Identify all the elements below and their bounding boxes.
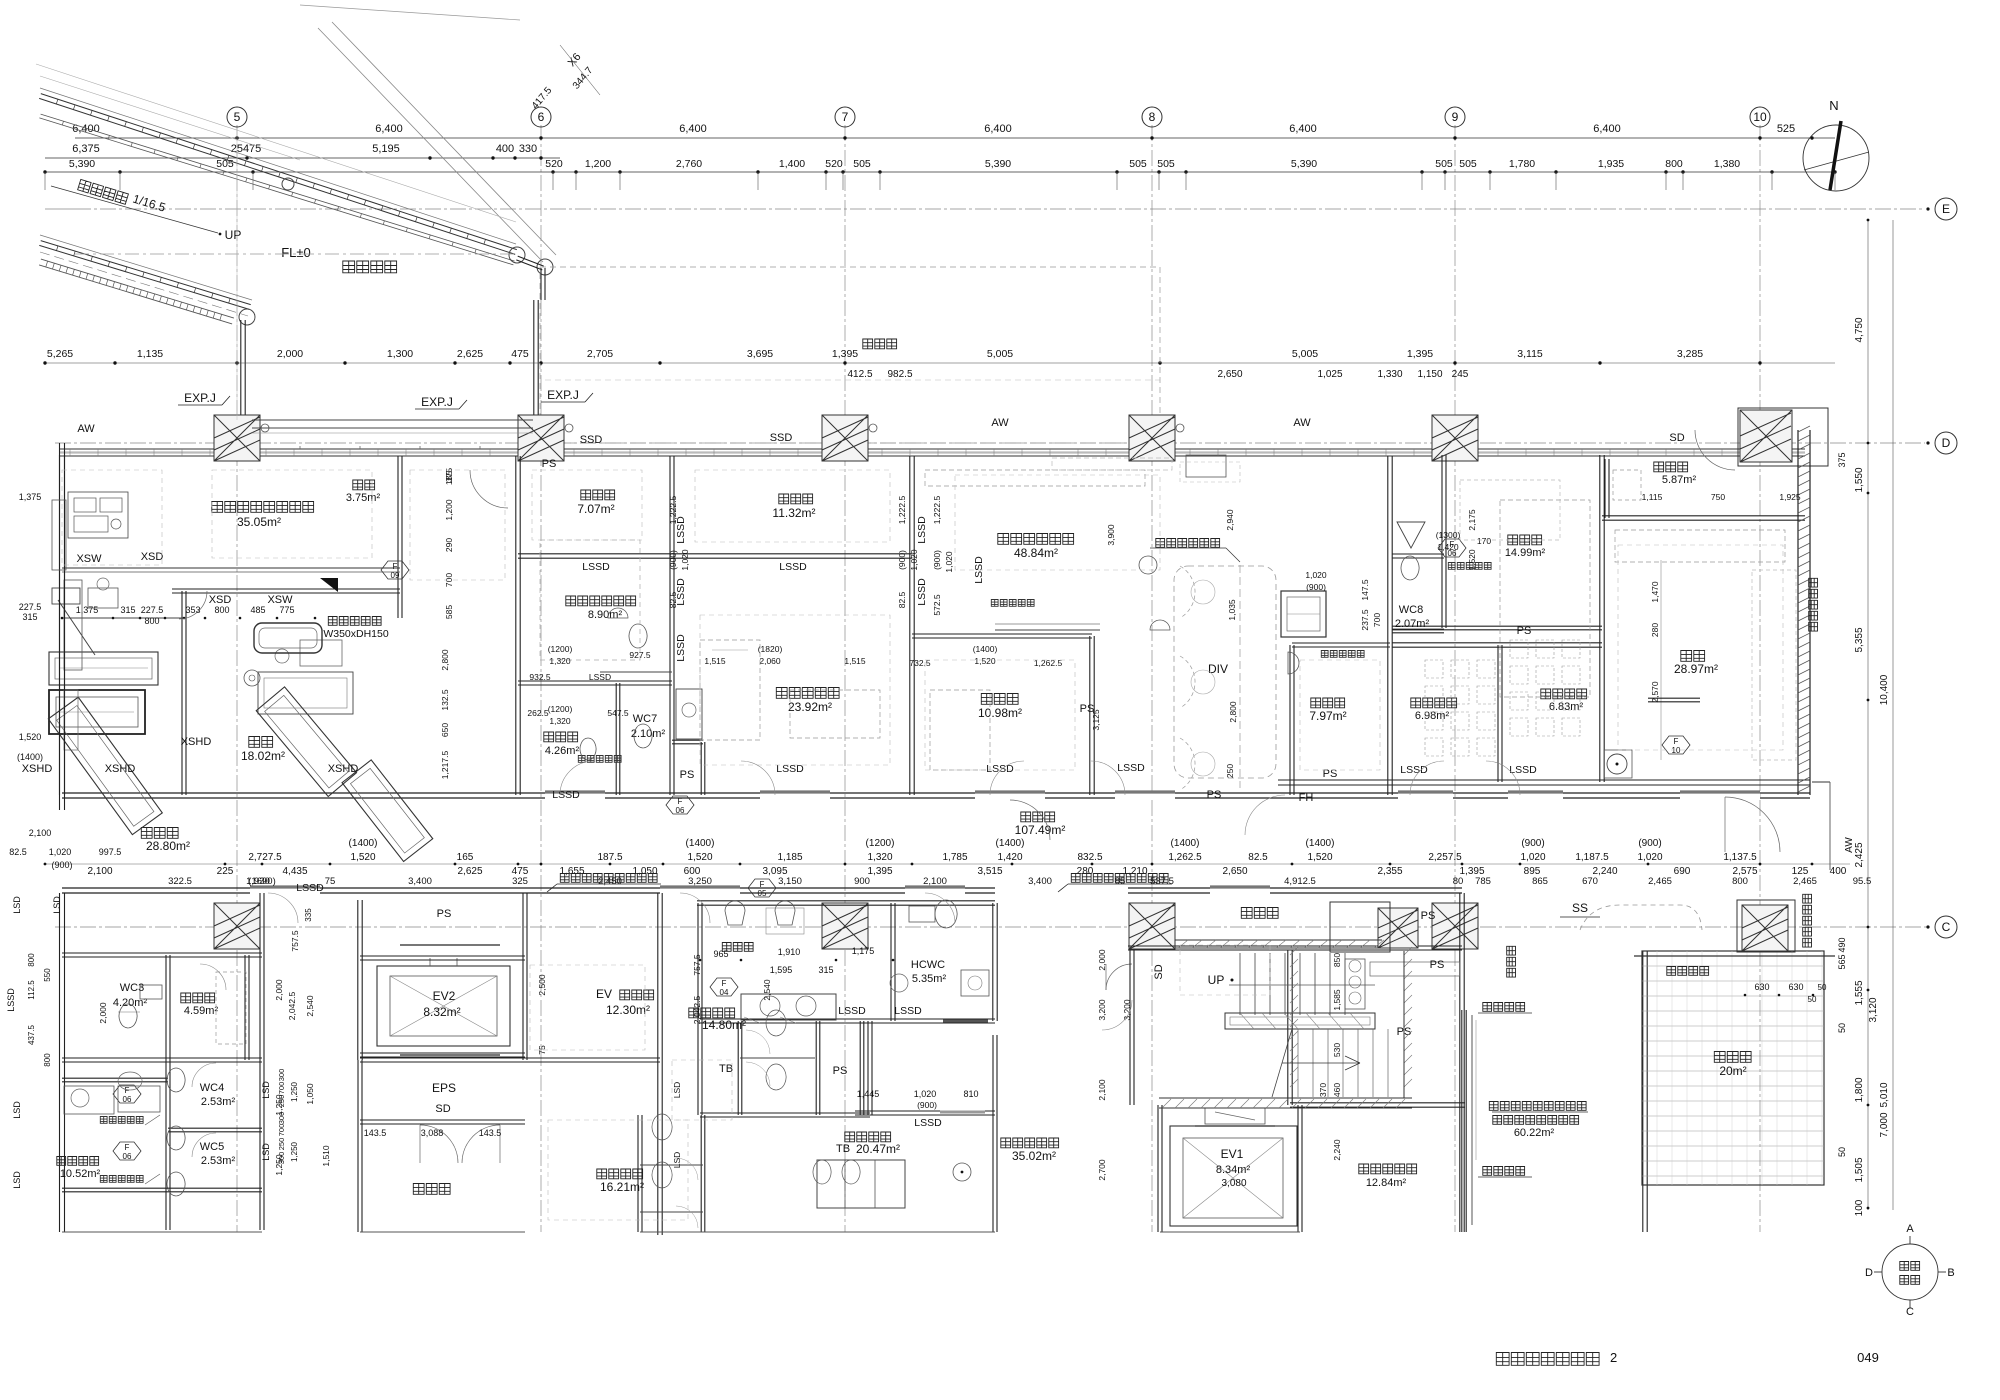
svg-text:XSW: XSW [267, 594, 293, 606]
grid bubbles right E D C [1935, 198, 1957, 220]
svg-text:5: 5 [234, 110, 241, 124]
room mendan1 6.98 [1411, 698, 1457, 708]
svg-text:D: D [1942, 436, 1951, 450]
svg-text:2,257.5: 2,257.5 [1428, 852, 1462, 863]
ozuishi label [722, 943, 753, 952]
svg-text:F: F [722, 979, 727, 988]
svg-text:1,550: 1,550 [1854, 467, 1865, 492]
svg-text:490: 490 [1837, 937, 1847, 952]
slope label [78, 179, 129, 204]
svg-text:10.98m²: 10.98m² [978, 706, 1022, 720]
ippan room top wall y591 [172, 592, 400, 594]
svg-text:2,000: 2,000 [274, 979, 284, 1001]
svg-text:147.5: 147.5 [1360, 579, 1370, 601]
svg-text:1,200: 1,200 [444, 499, 454, 521]
xray tube arm diagonal [58, 600, 95, 655]
svg-text:800: 800 [27, 953, 36, 967]
stair top-right fixtures [1345, 959, 1365, 1009]
svg-text:(1690): (1690) [248, 876, 275, 887]
svg-text:SSD: SSD [770, 432, 793, 444]
svg-text:(900): (900) [1306, 582, 1326, 592]
svg-text:520: 520 [545, 158, 563, 170]
svg-text:143.5: 143.5 [364, 1128, 387, 1138]
xray table 2 thick [49, 690, 145, 734]
kansen lining + toilet [600, 671, 672, 673]
svg-text:PS: PS [542, 458, 557, 470]
svg-text:7.97m²: 7.97m² [1309, 709, 1346, 723]
svg-text:1,135: 1,135 [137, 348, 163, 360]
svg-text:800: 800 [214, 605, 229, 615]
svg-text:PS: PS [1207, 789, 1222, 801]
svg-text:997.5: 997.5 [99, 847, 122, 857]
corridor bottom door gaps [250, 886, 320, 895]
svg-text:FH: FH [1299, 792, 1314, 804]
room seisouST [57, 1157, 99, 1166]
svg-text:1,520: 1,520 [974, 656, 996, 666]
svg-text:(900): (900) [51, 860, 72, 870]
dashed canopy outline [540, 267, 1160, 443]
svg-text:4,435: 4,435 [282, 866, 307, 877]
svg-text:1,520: 1,520 [350, 852, 375, 863]
EPS SD block [360, 1061, 660, 1063]
ramp upper circles [282, 178, 294, 190]
svg-text:(1400): (1400) [686, 838, 715, 849]
svg-text:2.07m²: 2.07m² [1395, 618, 1430, 630]
svg-text:1,222.5: 1,222.5 [897, 496, 907, 525]
kouishitsu lockers dashed [216, 972, 246, 1044]
svg-text:1,925: 1,925 [1779, 492, 1801, 502]
svg-text:2,800: 2,800 [1228, 701, 1238, 723]
svg-text:1,395: 1,395 [867, 866, 892, 877]
svg-text:2,042.5: 2,042.5 [692, 996, 702, 1025]
svg-text:375: 375 [1837, 452, 1847, 467]
svg-text:LSSD: LSSD [916, 516, 928, 544]
dashed ceiling rects rooms [532, 470, 642, 540]
dim row 2 [45, 157, 560, 159]
left sink counter cleaning room [64, 1086, 114, 1114]
svg-text:PS: PS [833, 1065, 848, 1077]
joshi right fixture [953, 1163, 971, 1181]
svg-text:F: F [760, 880, 765, 889]
svg-text:2,100: 2,100 [87, 866, 112, 877]
svg-text:1,020: 1,020 [944, 551, 954, 573]
stair treads upper flight [1240, 953, 1345, 1015]
svg-text:732.5: 732.5 [909, 658, 931, 668]
EV1 block [1157, 1105, 1159, 1232]
svg-text:520: 520 [825, 158, 843, 170]
lower-left partitions WC3/koui2 [62, 956, 262, 958]
svg-text:(1400): (1400) [996, 838, 1025, 849]
svg-text:630: 630 [1788, 982, 1803, 992]
joshi stalls left [700, 1115, 702, 1232]
door arcs lower rooms [268, 893, 298, 923]
WC8 bottom wall [1392, 632, 1444, 634]
renraku tsuro corridor label [343, 261, 397, 273]
svg-text:315: 315 [120, 605, 135, 615]
exterior wall top (window band along D) [60, 448, 1805, 450]
svg-text:EV: EV [596, 987, 612, 1001]
svg-text:5,195: 5,195 [372, 143, 400, 155]
svg-text:06: 06 [123, 1152, 132, 1161]
svg-text:932.5: 932.5 [529, 672, 551, 682]
kizaiko walls [1441, 455, 1443, 628]
room nakamachiai 28.80 [141, 828, 178, 839]
svg-text:35.02m²: 35.02m² [1012, 1149, 1056, 1163]
svg-text:50: 50 [1818, 983, 1827, 992]
svg-text:LSSD: LSSD [894, 1005, 922, 1017]
svg-text:3,125: 3,125 [1091, 709, 1101, 731]
svg-text:LSD: LSD [12, 896, 22, 914]
svg-text:1,185: 1,185 [777, 852, 802, 863]
svg-text:1,395: 1,395 [832, 348, 858, 360]
svg-text:WC5: WC5 [200, 1141, 224, 1153]
svg-text:4.59m²: 4.59m² [184, 1005, 219, 1017]
ramp band upper (connecting bridge wall) [39, 98, 515, 254]
svg-text:485: 485 [250, 605, 265, 615]
svg-text:2,700: 2,700 [1097, 1159, 1107, 1181]
dim row 3 [45, 171, 1835, 173]
right vertical dim line [1867, 220, 1869, 1210]
haisen pit rounded rect [254, 623, 322, 653]
EV2 tweak walls [360, 959, 525, 961]
AW band right of baiten going down [1812, 781, 1830, 783]
hex F markers [381, 561, 409, 579]
svg-text:2,240: 2,240 [1332, 1139, 1342, 1161]
svg-text:1,445: 1,445 [857, 1089, 880, 1099]
svg-text:12.30m²: 12.30m² [606, 1003, 650, 1017]
dim row above D [45, 362, 1835, 364]
svg-text:LSD: LSD [672, 1082, 682, 1099]
svg-text:850: 850 [1332, 953, 1342, 967]
svg-text:1,020: 1,020 [914, 1089, 937, 1099]
corridor left wall [240, 320, 242, 425]
PS box kyukyu [700, 742, 702, 795]
svg-text:28.97m²: 28.97m² [1674, 662, 1718, 676]
UP label and leader [51, 186, 218, 233]
room nakamachiai label [1241, 908, 1278, 919]
svg-text:LSSD: LSSD [296, 882, 324, 894]
svg-text:(900): (900) [932, 550, 942, 570]
svg-text:505: 505 [1129, 158, 1147, 170]
svg-text:1,785: 1,785 [942, 852, 967, 863]
svg-text:5.87m²: 5.87m² [1662, 474, 1697, 486]
fujoshitsu room with tile grid [1642, 951, 1824, 1185]
svg-text:1,520: 1,520 [1467, 549, 1477, 571]
svg-text:2.10m²: 2.10m² [631, 728, 666, 740]
svg-text:700: 700 [1372, 613, 1382, 627]
svg-text:06: 06 [123, 1095, 132, 1104]
svg-text:WC7: WC7 [633, 713, 657, 725]
svg-text:(1300): (1300) [1436, 530, 1461, 540]
X6 diagonal grid lines [318, 28, 543, 262]
upper small protrusion details top wall [299, 446, 301, 449]
svg-text:10: 10 [1753, 110, 1767, 124]
svg-text:E: E [1942, 202, 1950, 216]
svg-text:547.5: 547.5 [607, 708, 629, 718]
svg-text:LSSD: LSSD [776, 763, 804, 775]
svg-text:1,250: 1,250 [290, 1141, 299, 1162]
svg-text:7,000: 7,000 [1879, 1112, 1890, 1137]
svg-text:6,400: 6,400 [1289, 123, 1317, 135]
entrance hall west cove wall [1461, 1010, 1463, 1232]
svg-text:525: 525 [1777, 123, 1795, 135]
equip left wall small [64, 580, 82, 670]
svg-text:09: 09 [391, 571, 400, 580]
svg-text:1,222.5: 1,222.5 [932, 496, 942, 525]
equipment rack top-left [68, 492, 128, 538]
svg-text:2,042.5: 2,042.5 [287, 992, 297, 1021]
svg-text:TB: TB [836, 1143, 850, 1155]
svg-text:4,750: 4,750 [1854, 317, 1865, 342]
svg-text:505: 505 [1435, 158, 1453, 170]
svg-text:10,400: 10,400 [1879, 674, 1890, 705]
svg-text:400: 400 [496, 143, 514, 155]
svg-text:(1400): (1400) [1306, 838, 1335, 849]
door arcs corridor top openings [560, 761, 594, 795]
ramp band lower [39, 245, 249, 309]
XSHD leaf right lower [342, 760, 433, 862]
SW closet [1281, 591, 1326, 637]
svg-text:280: 280 [1650, 623, 1660, 637]
stair landing rail [1225, 1013, 1375, 1029]
svg-text:170: 170 [1477, 536, 1491, 546]
svg-text:60.22m²: 60.22m² [1514, 1127, 1555, 1139]
left exterior wall lower [59, 893, 61, 1232]
front room2 right x912 [909, 456, 911, 795]
svg-text:670: 670 [1582, 876, 1598, 887]
extra bottom edge wall stubs [62, 1231, 262, 1233]
EV2 door lines [400, 944, 500, 946]
svg-text:1,320: 1,320 [549, 716, 571, 726]
svg-text:185: 185 [444, 471, 454, 485]
joubu bouen screen labels [560, 874, 657, 883]
svg-text:(900): (900) [1521, 838, 1544, 849]
svg-text:2.53m²: 2.53m² [201, 1155, 236, 1167]
EV hall east wall [1129, 950, 1131, 1105]
WC3 fixtures [119, 1004, 137, 1028]
svg-text:1,505: 1,505 [1854, 1157, 1865, 1182]
svg-text:3,400: 3,400 [408, 876, 432, 887]
svg-text:530: 530 [1332, 1043, 1342, 1057]
svg-text:400: 400 [1830, 866, 1847, 877]
wall y556 between front rooms and lower rooms [518, 557, 912, 559]
svg-text:PS: PS [1430, 959, 1445, 971]
svg-text:1,520: 1,520 [19, 732, 42, 742]
svg-text:3,400: 3,400 [1028, 876, 1052, 887]
DIV curtain dashed zone [1174, 566, 1276, 778]
svg-text:95.5: 95.5 [1853, 876, 1872, 887]
svg-text:EXP.J: EXP.J [547, 388, 579, 402]
svg-text:C: C [1942, 920, 1951, 934]
svg-text:8.34m²: 8.34m² [1216, 1164, 1251, 1176]
nakamachiai upper corridor [1128, 949, 1462, 951]
svg-text:3.75m²: 3.75m² [346, 492, 381, 504]
svg-text:315: 315 [818, 965, 833, 975]
svg-text:(1400): (1400) [973, 644, 998, 654]
svg-text:F: F [1674, 737, 1679, 746]
svg-text:F: F [1450, 540, 1455, 549]
svg-text:TB: TB [719, 1063, 733, 1075]
WC4 WC5 block [165, 1060, 167, 1230]
svg-text:437.5: 437.5 [27, 1024, 36, 1045]
svg-text:LSSD: LSSD [552, 789, 580, 801]
curtain rail label [1156, 539, 1220, 548]
EV hall lower right wall [992, 1035, 994, 1232]
svg-text:F: F [125, 1143, 130, 1152]
svg-text:AW: AW [1844, 837, 1855, 853]
svg-text:1,780: 1,780 [1509, 158, 1535, 170]
toujitsu sink [1288, 652, 1299, 674]
svg-text:650: 650 [440, 723, 450, 737]
corridor top wall y795 [62, 792, 1810, 794]
svg-text:XSW: XSW [76, 553, 102, 565]
room souko1 5.87 [1654, 462, 1688, 472]
svg-text:2: 2 [1610, 1350, 1617, 1365]
svg-text:82.5: 82.5 [1248, 852, 1268, 863]
kyukyu beds dashed [700, 640, 760, 740]
WC8 toilet [1401, 556, 1419, 580]
svg-text:550: 550 [43, 968, 52, 982]
lining counter staff room [995, 629, 1100, 631]
svg-text:165: 165 [457, 852, 474, 863]
svg-text:1,020: 1,020 [1637, 852, 1662, 863]
corner column grid10 [1740, 410, 1792, 462]
svg-text:1,025: 1,025 [1317, 369, 1342, 380]
left exterior wall top block jog [59, 592, 61, 795]
room shinsatsu 10.98 [981, 694, 1018, 705]
svg-text:227.5: 227.5 [141, 605, 164, 615]
svg-text:330: 330 [519, 143, 537, 155]
right wing bottom wall y782 [1278, 779, 1810, 781]
svg-text:1,320: 1,320 [867, 852, 892, 863]
svg-text:1,050: 1,050 [305, 1083, 315, 1105]
columns on C line [214, 903, 260, 949]
svg-text:5,390: 5,390 [1291, 158, 1317, 170]
svg-text:5,005: 5,005 [987, 348, 1013, 360]
svg-text:1,400: 1,400 [779, 158, 805, 170]
svg-text:06: 06 [1448, 549, 1457, 558]
kansen room bottom y683 [518, 684, 672, 686]
svg-text:LSSD: LSSD [1400, 764, 1428, 776]
fire door quarter arc right [1725, 797, 1780, 852]
fujoshitsu label [1714, 1052, 1751, 1063]
stair block walls [1287, 950, 1289, 1105]
svg-text:3,250: 3,250 [688, 876, 712, 887]
svg-text:1,262.5: 1,262.5 [1034, 658, 1063, 668]
dashed car outline [1580, 905, 1702, 930]
svg-text:300: 300 [277, 1069, 286, 1082]
stair block wall hatch [1290, 947, 1412, 1087]
svg-text:48.84m²: 48.84m² [1014, 546, 1058, 560]
corridor top wall door gaps (white) [545, 791, 605, 800]
svg-text:572.5: 572.5 [932, 594, 942, 616]
svg-text:6: 6 [538, 110, 545, 124]
svg-text:6,400: 6,400 [984, 123, 1012, 135]
staff room extra dashed zone [1180, 462, 1240, 482]
svg-text:2,650: 2,650 [1222, 866, 1247, 877]
svg-text:112.5: 112.5 [27, 980, 36, 1000]
svg-text:PS: PS [1421, 910, 1436, 922]
front room partition x672 [669, 456, 671, 795]
svg-text:28.80m²: 28.80m² [146, 839, 190, 853]
svg-text:2,425: 2,425 [1854, 842, 1865, 867]
svg-text:EXP.J: EXP.J [184, 391, 216, 405]
svg-text:LSSD: LSSD [6, 988, 16, 1012]
svg-text:LSSD: LSSD [914, 1117, 942, 1129]
svg-text:1,175: 1,175 [852, 946, 875, 956]
svg-text:1,520: 1,520 [1307, 852, 1332, 863]
svg-text:LSD: LSD [12, 1101, 22, 1119]
svg-text:290: 290 [444, 538, 454, 552]
svg-text:1,020: 1,020 [909, 549, 919, 571]
svg-text:1,655: 1,655 [559, 866, 584, 877]
shinsatsu room walls [912, 637, 1092, 639]
svg-text:505: 505 [1157, 158, 1175, 170]
svg-text:(900): (900) [668, 550, 678, 570]
grid row line E [75, 208, 1925, 210]
svg-text:1,020: 1,020 [680, 549, 690, 571]
svg-text:C: C [1906, 1306, 1914, 1318]
svg-text:(900): (900) [1638, 838, 1661, 849]
svg-text:LSSD: LSSD [582, 561, 610, 573]
svg-text:5.35m²: 5.35m² [912, 973, 947, 985]
kabe dynock labels [1489, 1102, 1586, 1111]
entrance hall east wall [1642, 951, 1644, 1232]
svg-text:1,020: 1,020 [1305, 570, 1327, 580]
svg-text:775: 775 [279, 605, 294, 615]
svg-text:LSSD: LSSD [1509, 764, 1537, 776]
misc door arcs top strip [470, 470, 508, 508]
svg-text:1,380: 1,380 [1714, 158, 1740, 170]
corridor bottom wall y890 [62, 887, 995, 889]
xray table 1 horizontal [49, 652, 158, 685]
svg-text:9: 9 [1452, 110, 1459, 124]
hatched retaining band lower-left [39, 265, 232, 324]
mens wash counter island [741, 994, 836, 1020]
svg-text:982.5: 982.5 [887, 369, 912, 380]
svg-text:537.5: 537.5 [1150, 876, 1174, 887]
svg-text:1,510: 1,510 [321, 1145, 331, 1167]
svg-text:XSD: XSD [209, 594, 232, 606]
svg-text:WC4: WC4 [200, 1082, 224, 1094]
room koui2 4.59 [181, 993, 215, 1003]
room baiten 28.97 [1681, 651, 1705, 662]
toujitsu room walls [1289, 645, 1291, 795]
svg-text:75: 75 [325, 876, 336, 887]
svg-text:1,375: 1,375 [19, 492, 42, 502]
svg-text:143.5: 143.5 [479, 1128, 502, 1138]
svg-text:EXP.J: EXP.J [421, 395, 453, 409]
svg-text:250: 250 [277, 1138, 286, 1151]
svg-text:2,100: 2,100 [923, 876, 947, 887]
kansetsu shomei labels [1483, 1003, 1525, 1012]
svg-text:(1200): (1200) [548, 704, 573, 714]
svg-text:LSSD: LSSD [675, 634, 687, 662]
room kizaiko 14.99 [1508, 535, 1542, 545]
svg-text:800: 800 [144, 616, 159, 626]
svg-text:2,060: 2,060 [759, 656, 781, 666]
room toujitsu 7.97 [1311, 698, 1345, 708]
svg-text:2,000: 2,000 [277, 348, 303, 360]
svg-text:900: 900 [854, 876, 870, 887]
svg-text:1,115: 1,115 [1642, 492, 1663, 502]
svg-text:6,375: 6,375 [72, 143, 100, 155]
WC4 WC5 toilets [167, 1068, 185, 1092]
svg-text:PS: PS [680, 769, 695, 781]
svg-text:700: 700 [277, 1082, 286, 1095]
mens PS chamber [815, 1021, 817, 1115]
window ticks along AW [70, 449, 1778, 456]
